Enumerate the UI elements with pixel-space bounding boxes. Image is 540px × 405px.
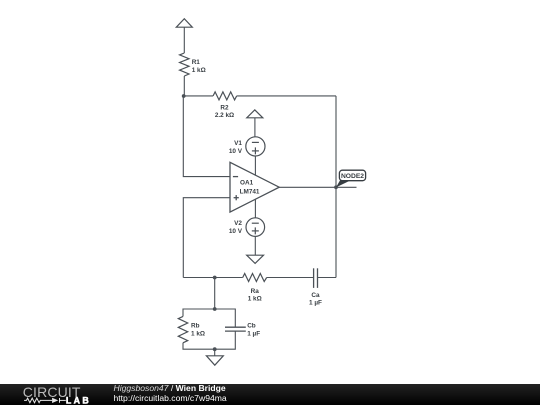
ground xyxy=(206,356,223,365)
wire node B down to RC tank xyxy=(214,278,216,310)
wire Ra to Ca xyxy=(267,277,314,279)
svg-text:Ra: Ra xyxy=(251,288,260,295)
CircuitLab logo xyxy=(0,384,100,405)
capacitor Ca xyxy=(314,268,318,288)
junction bottom node B xyxy=(213,276,217,280)
svg-text:V1: V1 xyxy=(234,140,242,147)
svg-text:NODE2: NODE2 xyxy=(341,173,364,180)
svg-text:1 kΩ: 1 kΩ xyxy=(191,330,205,337)
wire V1 arrow to V1 xyxy=(254,118,256,137)
svg-text:1 µF: 1 µF xyxy=(247,330,260,337)
wire R2 to right wall xyxy=(237,95,336,97)
wire right wall lower segment xyxy=(335,187,337,277)
junction output node xyxy=(334,185,338,189)
svg-text:R2: R2 xyxy=(220,105,229,112)
svg-text:1 kΩ: 1 kΩ xyxy=(192,67,206,74)
wire op-amp negative supply pin to V2 xyxy=(254,200,256,218)
svg-text:1 kΩ: 1 kΩ xyxy=(248,296,262,303)
resistor Ra xyxy=(243,274,267,282)
wire node A to R2 xyxy=(184,95,213,97)
svg-text:Cb: Cb xyxy=(247,323,256,330)
wire left wall upper (node A to inverting input) xyxy=(183,96,230,177)
wire tank bottom rail xyxy=(183,331,235,349)
svg-text:Ca: Ca xyxy=(311,292,320,299)
svg-text:Rb: Rb xyxy=(191,323,200,330)
svg-text:10 V: 10 V xyxy=(229,148,243,155)
op-amp OA1 xyxy=(230,162,279,212)
capacitor Cb xyxy=(225,327,246,331)
svg-text:OA1: OA1 xyxy=(240,180,254,187)
svg-text:1 µF: 1 µF xyxy=(309,300,322,307)
power supply arrow negative (down) xyxy=(247,255,264,263)
junction tank bottom xyxy=(213,347,217,351)
resistor R1 xyxy=(180,53,189,76)
wire Ca to right wall xyxy=(318,277,337,279)
svg-text:2.2 kΩ: 2.2 kΩ xyxy=(215,112,234,119)
voltage source V1 xyxy=(246,137,265,156)
power supply arrow VCC (top) xyxy=(176,19,192,28)
svg-text:V2: V2 xyxy=(234,220,242,227)
svg-text:10 V: 10 V xyxy=(229,228,243,235)
voltage source V2 xyxy=(246,218,265,237)
wire V1 to op-amp positive supply pin xyxy=(254,156,256,176)
wire bottom rail left (left wall to Ra) xyxy=(183,277,242,279)
wire non-inverting input to left wall lower xyxy=(183,198,230,278)
footer title text xyxy=(114,384,227,403)
svg-text:LAB: LAB xyxy=(66,395,91,405)
wire R1 to node A xyxy=(183,76,185,96)
node A junction dot xyxy=(182,94,186,98)
wire tank top rail xyxy=(183,309,235,327)
junction tank top xyxy=(213,307,217,311)
wire op-amp output to NODE2 xyxy=(279,186,356,188)
resistor R2 xyxy=(213,92,237,100)
svg-text:R1: R1 xyxy=(192,59,201,66)
svg-text:LM741: LM741 xyxy=(240,188,260,195)
node NODE2 flag xyxy=(336,170,366,187)
wire right wall upper segment xyxy=(335,96,337,187)
power supply arrow V1 positive xyxy=(247,110,263,118)
wire V2 to negative supply arrow xyxy=(254,236,256,255)
footer bar xyxy=(0,384,540,405)
wire to ground xyxy=(214,349,216,356)
wire VCC arrow to R1 xyxy=(183,27,185,53)
resistor Rb xyxy=(178,316,187,342)
